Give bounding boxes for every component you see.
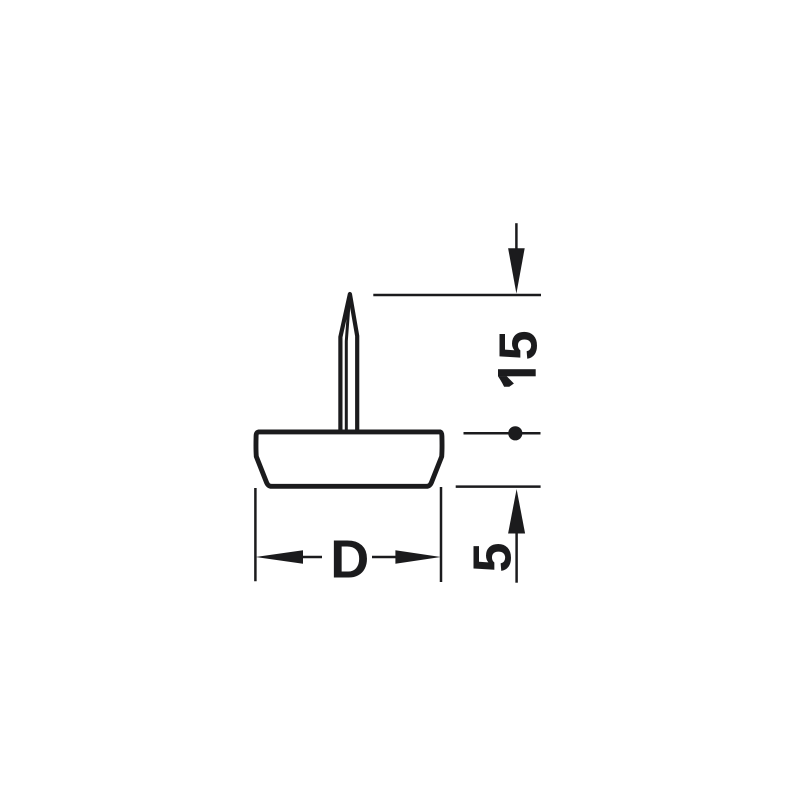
label 15 digit 1 stem — [498, 369, 536, 376]
extension line D left — [254, 488, 257, 581]
extension line D right — [440, 487, 443, 582]
dimension arrow pointing up to base bottom line — [508, 489, 525, 583]
dimension arrow pointing down to tip line — [508, 223, 525, 293]
dimension line with dot at base top level — [464, 426, 541, 440]
extension line at base bottom level — [456, 485, 541, 488]
D dimension left arrow and line — [256, 550, 323, 564]
label 15 digit 1 flag — [498, 376, 514, 387]
nail outline — [340, 294, 357, 431]
svg-text:D: D — [330, 529, 369, 589]
svg-text:5: 5 — [462, 542, 522, 572]
D dimension right arrow and line — [372, 550, 441, 564]
svg-text:5: 5 — [489, 330, 549, 360]
nail ridge line — [346, 296, 349, 430]
extension line at nail tip level — [373, 294, 541, 297]
glide base outline — [256, 432, 442, 486]
